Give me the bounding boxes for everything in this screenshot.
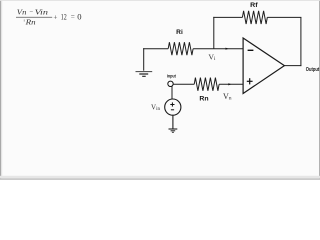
ground GND2 (below Vin)	[169, 129, 178, 132]
current arrowhead on non-inverting input wire	[228, 83, 231, 85]
wire: ground to Ri	[143, 48, 168, 50]
svg-text:−: −	[29, 9, 33, 16]
resistor Rn	[194, 78, 219, 91]
current arrowhead on inverting input wire	[226, 48, 229, 50]
op-amp inverting input marker (-)	[248, 49, 254, 51]
svg-text:Input: Input	[167, 74, 177, 79]
svg-text:Rn: Rn	[24, 18, 36, 27]
svg-text:12: 12	[61, 11, 67, 21]
svg-text:Ri: Ri	[176, 29, 183, 36]
wire: input terminal down to Vin source	[171, 86, 173, 99]
wire: output from op-amp apex	[284, 65, 301, 67]
svg-text:Output: Output	[306, 67, 320, 73]
wire: feedback top to Rf	[213, 16, 242, 18]
resistor Ri	[168, 42, 193, 55]
svg-text:Vn: Vn	[17, 8, 27, 17]
wire: feedback vertical from node Vi	[213, 17, 215, 49]
wire: Rf to right corner	[267, 16, 301, 18]
input terminal circle	[168, 81, 173, 86]
wire: input terminal to Rn	[173, 83, 194, 85]
svg-text:=: =	[71, 13, 75, 21]
svg-text:+: +	[53, 13, 57, 21]
resistor Rf	[242, 11, 267, 24]
wire: Ri to op-amp inverting input (node Vi)	[193, 48, 243, 50]
wire: Rn to op-amp non-inverting input (node Vn)	[219, 83, 243, 85]
svg-text:Rf: Rf	[250, 2, 258, 9]
formula: (Vn - Vin)/Rn + 12 = 0	[16, 8, 82, 27]
voltage source Vin	[165, 99, 181, 115]
wire: right vertical down to output	[300, 17, 302, 66]
svg-text:Vin: Vin	[35, 8, 49, 17]
svg-text:0: 0	[77, 11, 81, 21]
svg-text:Rn: Rn	[199, 96, 208, 103]
wire: source to ground	[172, 115, 174, 129]
ground GND1 (left of Ri)	[136, 48, 153, 76]
op-amp U1	[243, 38, 284, 94]
op-amp non-inverting input marker (+)	[247, 78, 253, 84]
